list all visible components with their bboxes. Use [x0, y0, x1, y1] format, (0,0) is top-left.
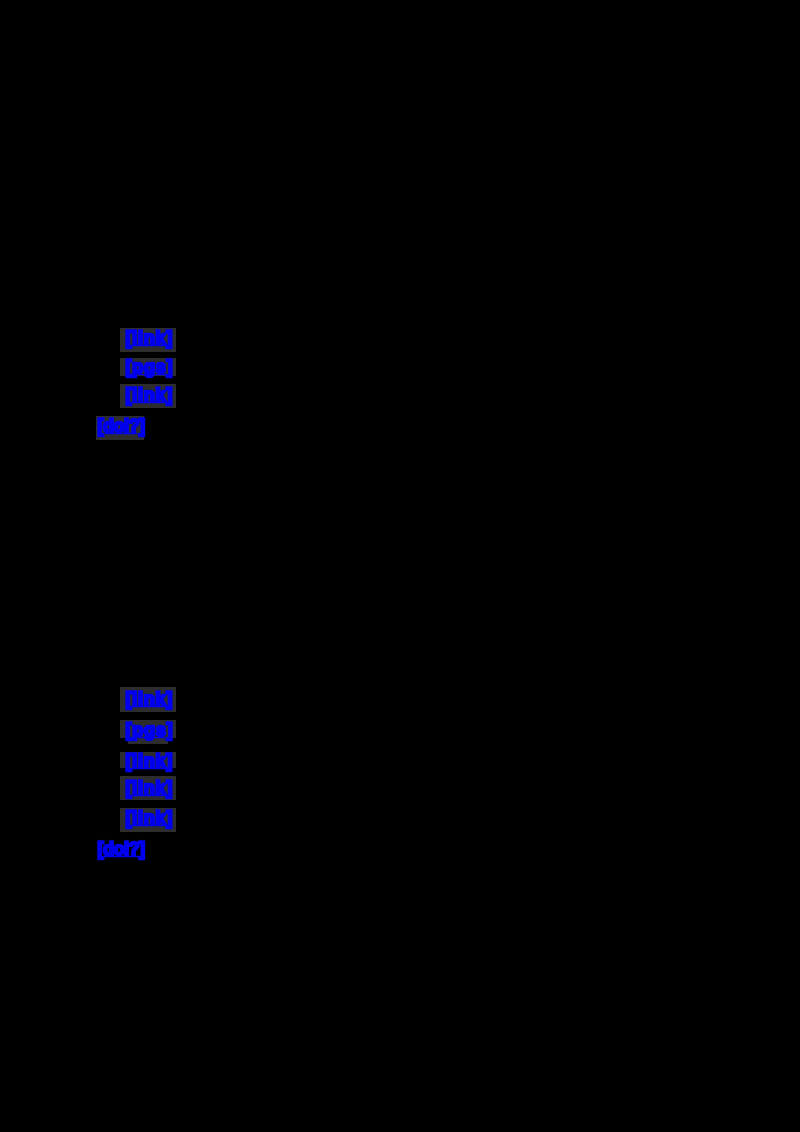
link shading box 2 (group 1, item 2): [120, 358, 176, 376]
link text 7 (group 2, item 3): [126, 752, 174, 770]
link text 9 (group 2, item 5): [126, 809, 174, 827]
link text 8 (group 2, item 4): [126, 779, 174, 797]
link text 4 (group 1, item 4): [98, 417, 145, 435]
link shading box 9 (group 2, item 5): [120, 808, 176, 832]
link shading box 7 (group 2, item 3): [120, 752, 176, 768]
link shading box 6 (group 2, item 2): [120, 720, 176, 738]
link text 10 (group 2, item 6, no shading): [98, 840, 145, 858]
link shading box 8 (group 2, item 4): [120, 776, 176, 800]
link text 1 (group 1, item 1): [126, 329, 174, 347]
link shading box 4 (group 1, item 4): [96, 416, 144, 440]
link shading box 1 (group 1, item 1): [120, 328, 176, 352]
link shading box 3 (group 1, item 3): [120, 384, 176, 408]
link shading box 6 descender tail: [128, 737, 168, 744]
link shading box 5 (group 2, item 1): [120, 687, 176, 712]
link text 2 (group 1, item 2): [126, 358, 174, 376]
link text 5 (group 2, item 1): [126, 690, 174, 708]
link text 3 (group 1, item 3): [126, 386, 174, 404]
link text 6 (group 2, item 2): [126, 721, 174, 739]
